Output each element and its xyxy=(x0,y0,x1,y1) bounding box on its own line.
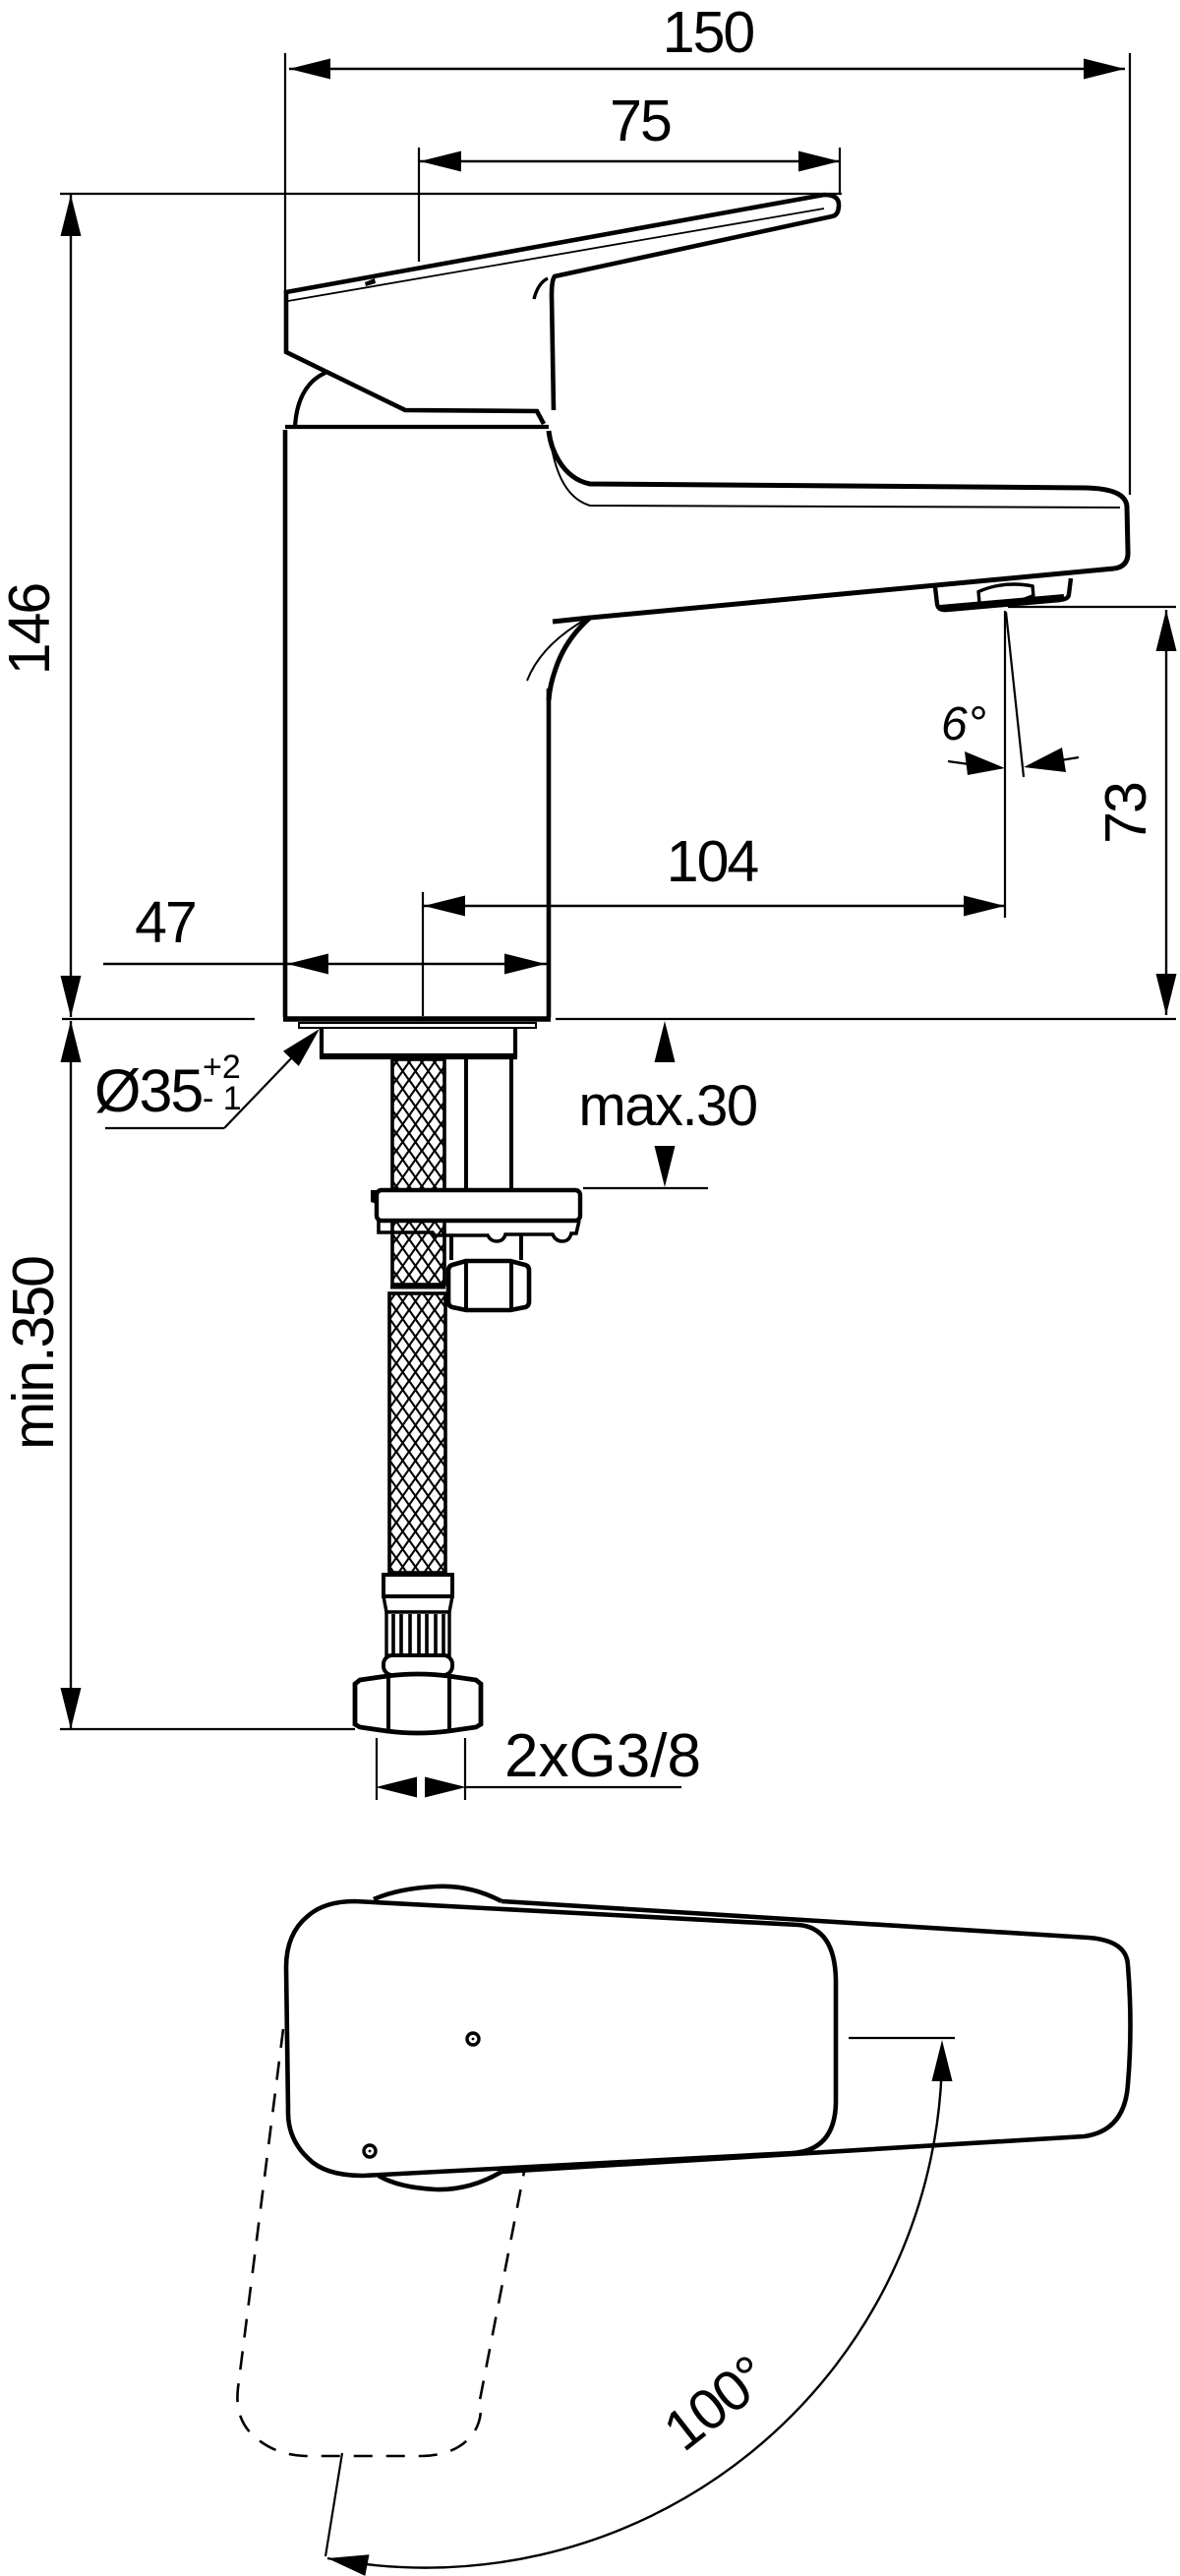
dimension 6 degrees label (italic) xyxy=(941,611,1079,918)
6 degree tilted line xyxy=(1006,612,1024,777)
faucet body column xyxy=(283,373,551,1019)
dimension 47 line xyxy=(103,963,547,965)
dimension 146 line xyxy=(70,195,72,1017)
faucet head dome xyxy=(286,305,544,424)
svg-text:150: 150 xyxy=(663,0,754,65)
base gasket xyxy=(299,1023,536,1028)
dimension max.30 label xyxy=(578,1021,756,1188)
spout underside line xyxy=(549,569,1114,700)
svg-text:47: 47 xyxy=(135,890,196,955)
top view body outline xyxy=(286,1901,836,2176)
extension line left (150) xyxy=(284,53,286,293)
6 degree vertical reference line xyxy=(1004,611,1006,918)
dimension 75 label xyxy=(419,89,840,262)
dimension 146 label (rotated) xyxy=(0,194,842,1017)
100 degree reference tick xyxy=(849,2037,955,2039)
100 degree arc xyxy=(327,2056,942,2568)
svg-text:Ø35: Ø35 xyxy=(94,1057,202,1124)
dimension 150 label xyxy=(285,0,1130,495)
mounting flange xyxy=(371,1190,580,1241)
svg-text:73: 73 xyxy=(1093,783,1158,844)
bottom hex nut G3/8 xyxy=(355,1674,481,1733)
dimension 73 line xyxy=(1165,610,1167,1015)
svg-text:146: 146 xyxy=(0,584,62,676)
spout top thin edge line xyxy=(552,448,1120,508)
side hose stub xyxy=(451,1235,521,1260)
svg-text:2xG3/8: 2xG3/8 xyxy=(504,1722,701,1790)
dimension min.350 line xyxy=(70,1021,72,1729)
reference line top (146) xyxy=(60,193,842,195)
svg-text:- 1: - 1 xyxy=(203,1080,242,1117)
dashed swung handle outline xyxy=(237,2029,524,2456)
baseline (counter top) xyxy=(62,1018,1176,1020)
leader from dashed handle to arc xyxy=(325,2453,342,2556)
svg-text:104: 104 xyxy=(667,829,759,894)
dimension diameter 35 label xyxy=(94,1029,320,1128)
extension line (max.30 bottom) xyxy=(583,1187,708,1189)
hose end knurl xyxy=(386,1612,449,1655)
body base thick line xyxy=(283,1016,551,1022)
100 degree label (rotated) xyxy=(325,2038,955,2576)
6 degree right arrow xyxy=(1042,757,1079,763)
extension line right (75) xyxy=(839,148,841,193)
extension line top (73) xyxy=(1008,606,1176,608)
extension line (104 left) xyxy=(422,892,424,1016)
threaded mounting pipe xyxy=(466,1059,511,1188)
side hex nut xyxy=(448,1261,529,1310)
2xG3/8 arrows xyxy=(376,1777,417,1798)
top view handle xyxy=(374,1887,1131,2189)
hose end ferrule xyxy=(383,1575,452,1612)
svg-text:75: 75 xyxy=(610,89,671,153)
top view screw holes xyxy=(364,2033,479,2157)
dimension 104 line xyxy=(424,905,1005,907)
svg-text:max.30: max.30 xyxy=(578,1074,756,1138)
lever inner thin line xyxy=(288,209,824,301)
2xG3/8 tail line xyxy=(466,1786,681,1788)
braided hose upper segment xyxy=(392,1059,444,1285)
max.30 up arrow xyxy=(655,1021,676,1062)
svg-text:6°: 6° xyxy=(941,698,986,750)
reference line bottom (min.350) xyxy=(60,1728,355,1730)
leader line (dia 35) xyxy=(105,1054,295,1128)
body top seam line xyxy=(285,425,549,429)
hose end collar xyxy=(383,1655,452,1675)
2xG3/8 extension lines xyxy=(376,1738,378,1800)
max.30 down arrow xyxy=(655,1146,676,1187)
dimension min.350 label (rotated) xyxy=(1,1021,355,1729)
body shoulder arc xyxy=(295,373,325,428)
dimension 104 label xyxy=(423,829,1005,1016)
svg-text:min.350: min.350 xyxy=(1,1257,66,1450)
handle lever xyxy=(286,195,839,410)
extension line right (150) xyxy=(1129,53,1131,495)
dimension 47 label xyxy=(103,890,547,975)
dimension 75 line xyxy=(420,160,840,162)
6 degree left arrow xyxy=(948,761,983,766)
braided hose lower segment xyxy=(389,1288,445,1573)
mounting collar xyxy=(320,1029,517,1057)
spout arm xyxy=(527,431,1128,700)
extension line left (75) xyxy=(418,148,420,262)
spout underside thin parallel xyxy=(527,620,585,681)
aerator outlet xyxy=(935,578,1071,610)
dimension 2xG3/8 label xyxy=(376,1722,701,1800)
dimension 73 label (rotated) xyxy=(1008,607,1177,1015)
dimension 150 line xyxy=(289,68,1125,70)
eco click mark on lever xyxy=(365,278,376,286)
